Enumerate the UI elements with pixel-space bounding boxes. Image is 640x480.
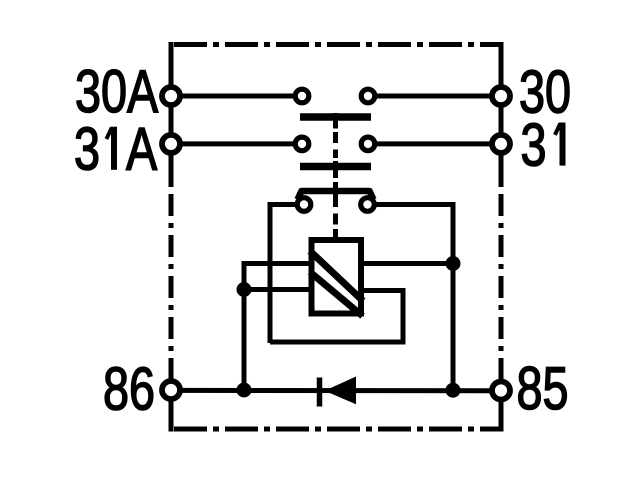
junction node coil left lower xyxy=(237,282,252,297)
relay housing outline right border upper segment xyxy=(499,42,504,187)
contact bridge bar middle (31A-31) xyxy=(300,163,371,171)
contact circle changeover right xyxy=(361,198,375,212)
wire terminal 31A to contact xyxy=(171,141,302,146)
svg-text:85: 85 xyxy=(517,355,569,422)
svg-text:3: 3 xyxy=(521,112,547,179)
relay housing outline left border middle segment (dash-dot) xyxy=(169,187,174,390)
terminal 86 xyxy=(162,381,180,399)
wire coil right terminal to node at 453 xyxy=(360,261,453,266)
contact circle 30A side xyxy=(295,89,309,103)
junction node 86 rail xyxy=(237,383,252,398)
contact bridge bar lower (changeover, closed) xyxy=(298,191,374,200)
relay coil K1 body xyxy=(312,240,362,314)
terminal 30A xyxy=(162,87,180,105)
svg-text:3: 3 xyxy=(74,116,100,183)
wire right changeover contact down to node 85 rail xyxy=(368,205,454,391)
contact circle 30 side xyxy=(361,89,375,103)
contact circle 31 side xyxy=(361,137,375,151)
wire contact to terminal 31 xyxy=(368,141,501,146)
terminal 30 xyxy=(492,87,510,105)
relay coil K1 diagonal stripe lower xyxy=(310,272,363,316)
actuator linkage (dashed) xyxy=(333,113,338,237)
wire coil left terminal to node 86 rail xyxy=(244,264,312,391)
relay housing outline left border lower segment xyxy=(169,390,174,432)
terminal 31 xyxy=(492,135,510,153)
junction node coil right xyxy=(446,256,461,271)
relay housing outline right border lower segment xyxy=(499,392,504,432)
relay housing outline right border middle segment (dash-dot) xyxy=(499,187,504,392)
wire bottom rail terminal 86 to terminal 85 xyxy=(171,388,501,393)
terminal 31A xyxy=(162,135,180,153)
wire coil lower-right loop xyxy=(270,291,403,343)
contact circle changeover left xyxy=(297,198,311,212)
svg-text:A: A xyxy=(126,116,157,183)
svg-text:86: 86 xyxy=(103,356,155,423)
relay housing outline left border upper segment xyxy=(169,42,174,187)
label 31A xyxy=(74,116,157,183)
label 31 xyxy=(521,112,566,179)
relay housing outline bottom border (dash-dot) xyxy=(171,427,502,432)
wire coil lower-left stub xyxy=(244,287,312,292)
diode V1 arrow xyxy=(325,377,357,405)
contact circle 31A side xyxy=(295,137,309,151)
contact bridge bar upper (30A-30) xyxy=(300,113,371,121)
relay coil K1 diagonal stripe upper xyxy=(310,251,363,301)
diode V1 cathode bar xyxy=(317,378,323,407)
junction node 85 rail xyxy=(446,383,461,398)
terminal 85 xyxy=(492,382,510,400)
wire terminal 30A to contact xyxy=(171,94,302,99)
relay housing outline top border (dash-dot) xyxy=(171,42,502,47)
wire contact to terminal 30 xyxy=(368,94,501,99)
wire left changeover contact to inner loop xyxy=(270,205,304,344)
